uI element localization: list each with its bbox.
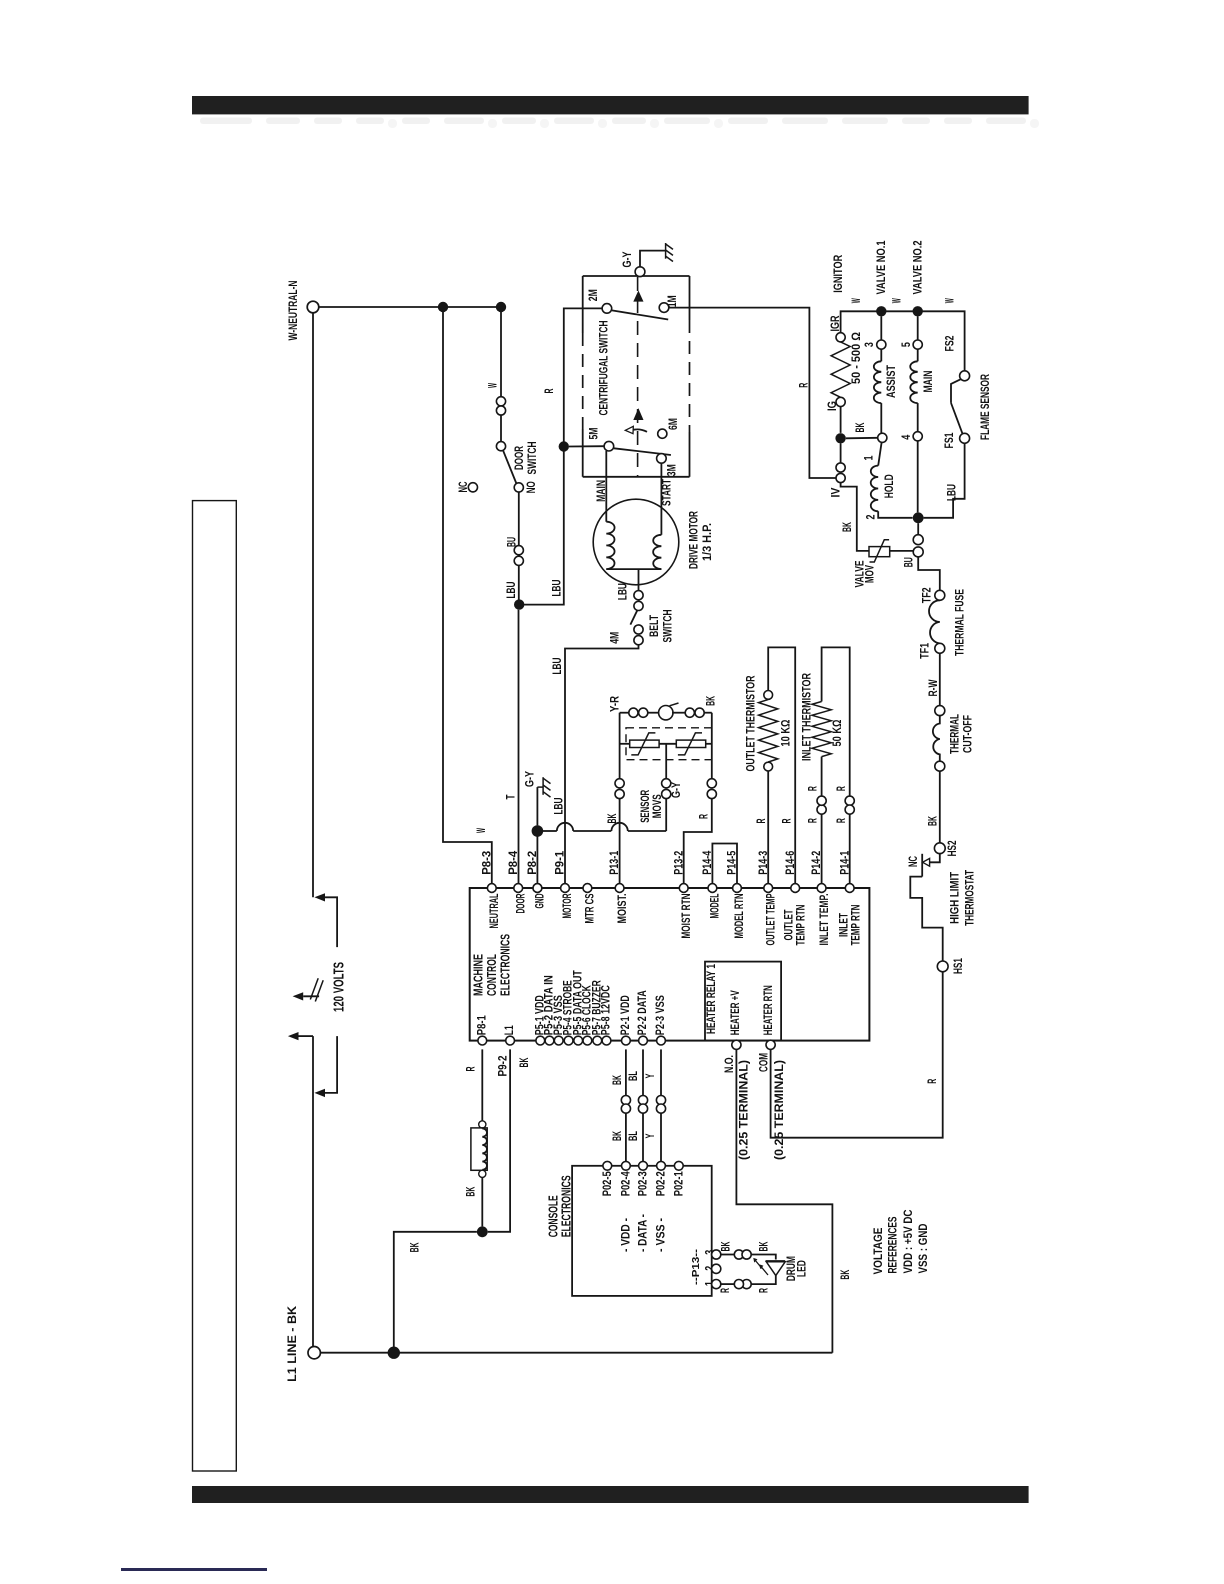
svg-text:P14-5: P14-5 (727, 850, 739, 874)
wire: L1 riser (312, 1036, 314, 1346)
pin P14-4 on MCE top (708, 884, 717, 893)
switch: door switch (496, 442, 505, 451)
svg-text:P13-1: P13-1 (609, 850, 621, 874)
marker: triangle upper (633, 291, 643, 302)
wire: winding bottoms (606, 568, 661, 570)
wire: P9-2 BK (488, 1049, 510, 1231)
svg-text:OUTLET TEMP: OUTLET TEMP (765, 893, 777, 945)
pin P02-4 console top (622, 1161, 631, 1170)
wire: T door to P8-4 (518, 610, 520, 884)
svg-text:ASSIST: ASSIST (886, 365, 898, 398)
svg-text:L1: L1 (504, 1025, 516, 1035)
pin P5-4 STROBE on MCE bottom (564, 1036, 573, 1045)
thermistor: inlet 50K (821, 814, 823, 884)
box: centrifugal switch (583, 275, 690, 277)
schematic sheet edge box (193, 501, 237, 1471)
wire: start lead (660, 463, 662, 535)
svg-text:R: R (836, 818, 848, 823)
svg-text:HS2: HS2 (947, 840, 959, 856)
flame sensor (960, 371, 970, 381)
valve: main coil (917, 317, 919, 341)
box: console electronics (572, 1166, 712, 1296)
pin P8-2 terminal (533, 884, 542, 893)
valve: hold coil (878, 442, 881, 465)
pin L1 on MCE bottom (506, 1036, 515, 1045)
wire: LBU to 5M junction (519, 451, 564, 605)
svg-text:START: START (662, 479, 674, 506)
svg-text:L1 LINE - BK: L1 LINE - BK (287, 1305, 299, 1382)
svg-text:W: W (945, 298, 957, 303)
svg-text:Y-R: Y-R (610, 695, 622, 712)
svg-text:TEMP RTN: TEMP RTN (851, 905, 863, 946)
svg-text:SWITCH: SWITCH (663, 610, 675, 643)
wire: model jumper P14-4/P14-5 (712, 844, 737, 884)
motor: drive motor 1/3 HP (593, 499, 679, 585)
svg-text:120 VOLTS: 120 VOLTS (332, 962, 348, 1012)
svg-text:BK: BK (466, 1186, 478, 1196)
svg-text:BK: BK (410, 1242, 422, 1252)
wire: valve junction down to thermal fuse (917, 523, 919, 535)
svg-text:R: R (927, 1078, 939, 1083)
marker: actuator arrow (634, 429, 648, 431)
wire: GND net with hops (536, 837, 538, 884)
svg-text:R: R (807, 786, 819, 791)
header bar (192, 96, 1029, 114)
svg-text:R: R (698, 814, 710, 819)
svg-text:LBU: LBU (551, 580, 563, 597)
pin P8-2 on MCE top (533, 884, 542, 893)
svg-text:P2-2 DATA: P2-2 DATA (637, 990, 649, 1035)
svg-text:P02-1: P02-1 (673, 1171, 685, 1196)
node: junction W wire (438, 302, 448, 312)
pin P5-7 BUZZER on MCE bottom (593, 1036, 602, 1045)
svg-text:2: 2 (866, 515, 878, 520)
pin P14-1 on MCE top (845, 884, 854, 893)
svg-text:BK: BK (840, 1269, 852, 1279)
svg-text:6M: 6M (668, 418, 680, 430)
svg-text:HEATER RTN: HEATER RTN (763, 985, 775, 1035)
svg-text:P8-3: P8-3 (481, 851, 493, 875)
pin P02-5 console top (603, 1161, 612, 1170)
wire: R from 2M down to 5M junction (564, 308, 602, 442)
node: neutral terminal W-NEUTRAL-N (307, 301, 319, 313)
node: junction valve2 (913, 306, 923, 316)
svg-text:R-W: R-W (928, 679, 940, 696)
svg-text:IV: IV (831, 487, 843, 497)
pin P13-2 on MCE top (679, 884, 688, 893)
svg-text:GND: GND (535, 894, 547, 909)
svg-text:INLET: INLET (838, 913, 850, 937)
wire BK P2-console (625, 1049, 627, 1095)
svg-text:LBU: LBU (506, 582, 518, 599)
pin P14-2 on MCE top (817, 884, 826, 893)
svg-text:DOOR: DOOR (515, 893, 527, 913)
svg-text:HS1: HS1 (953, 958, 965, 974)
wire: 1M to ignitor connector IV (669, 308, 836, 478)
wire: BK to hold/assist junction (846, 437, 878, 440)
svg-text:CENTRIFUGAL SWITCH: CENTRIFUGAL SWITCH (599, 321, 611, 416)
pin P14-6 on MCE top (791, 884, 800, 893)
node: junction valve1 (876, 306, 886, 316)
node: junction door-switch feed (496, 302, 506, 312)
svg-text:HOLD: HOLD (884, 474, 896, 498)
pin P5-2 DATA IN on MCE bottom (545, 1036, 554, 1045)
svg-text:HEATER +V: HEATER +V (730, 990, 742, 1035)
svg-text:R: R (782, 818, 794, 823)
wire: sensor left leg BK to P13-1 (619, 713, 621, 779)
pin P8-1 on MCE bottom (478, 1036, 487, 1045)
footer bar (192, 1486, 1029, 1503)
svg-text:T: T (505, 795, 517, 800)
svg-text:BU: BU (903, 557, 915, 567)
pin P2-3 VSS on MCE bottom (657, 1036, 666, 1045)
ignitor branch (841, 311, 965, 371)
svg-text:1M: 1M (667, 295, 679, 307)
pin MTR CS on MCE top (583, 884, 592, 893)
svg-text:P14-3: P14-3 (758, 851, 770, 875)
svg-text:BL: BL (628, 1131, 640, 1141)
svg-text:P14-2: P14-2 (811, 851, 823, 875)
svg-text:THERMAL: THERMAL (950, 714, 962, 754)
sensor: rotating contact (659, 706, 673, 720)
svg-text:IGNITOR: IGNITOR (833, 254, 845, 293)
pin P2-1 VDD on MCE bottom (622, 1036, 631, 1045)
svg-text:ELECTRONICS: ELECTRONICS (497, 934, 512, 996)
svg-text:BK: BK (519, 1057, 531, 1067)
wire: W to P8-3 (443, 307, 492, 884)
wire: junction to 5M (569, 445, 604, 447)
svg-text:P13-2: P13-2 (673, 851, 685, 875)
varistor: MOV 2 (676, 740, 705, 747)
valve: assist coil (880, 317, 882, 341)
wire: FS1 LBU to valve junction (924, 443, 965, 518)
svg-text:HIGH LIMIT: HIGH LIMIT (949, 872, 961, 924)
svg-text:P5-8 12VDC: P5-8 12VDC (601, 985, 613, 1035)
svg-text:R: R (756, 818, 768, 823)
svg-text:Y: Y (645, 1133, 657, 1138)
svg-text:5: 5 (901, 342, 913, 347)
svg-text:CUT-OFF: CUT-OFF (962, 715, 974, 753)
switch: centrifugal 2M-1M (602, 304, 612, 314)
wire: main lead (605, 451, 607, 522)
svg-text:MTR CS: MTR CS (585, 893, 597, 923)
node: junction GND (532, 825, 544, 837)
pin P13-1 on MCE top (615, 884, 624, 893)
node: junction at 5M feed (559, 441, 569, 451)
wire BL P2-console (642, 1049, 644, 1095)
svg-text:BK: BK (842, 522, 854, 532)
svg-text:LBU: LBU (552, 658, 564, 675)
svg-text:MOVS: MOVS (652, 794, 664, 818)
svg-text:FS2: FS2 (945, 336, 957, 352)
wire: P13-3 BK to LED (721, 1254, 735, 1256)
wire: P8-1 R / fuse link (481, 1049, 483, 1121)
svg-text:BK: BK (855, 422, 867, 432)
switch: belt switch (634, 591, 643, 600)
svg-text:FLAME SENSOR: FLAME SENSOR (980, 374, 992, 440)
svg-text:SWITCH: SWITCH (527, 442, 539, 475)
resistor: ignitor 50-500 ohm (836, 333, 845, 342)
svg-text:W: W (476, 828, 488, 833)
thermistor: outlet 10K (767, 771, 769, 884)
wire: sensor right leg R to P13-2 (711, 713, 713, 779)
fuse: line fuse (479, 1121, 486, 1128)
svg-text:R: R (720, 1288, 732, 1293)
footer link underline (121, 1568, 267, 1571)
pin P2-2 DATA on MCE bottom (639, 1036, 648, 1045)
wire: belt switch to P9-1 (LBU) (565, 645, 639, 884)
svg-text:TEMP RTN: TEMP RTN (795, 905, 807, 946)
svg-text:P2-3 VSS: P2-3 VSS (655, 995, 667, 1035)
pin N.O. heater (732, 1040, 741, 1049)
svg-text:IGR: IGR (830, 315, 842, 332)
dashed actuator line (637, 277, 639, 476)
svg-text:W-NEUTRAL-N: W-NEUTRAL-N (288, 281, 300, 341)
svg-text:P02-2: P02-2 (656, 1171, 668, 1196)
wire: BK to L1 dot (394, 1232, 477, 1347)
svg-text:MOIST.: MOIST. (617, 894, 629, 924)
pin P5-1 VDD on MCE bottom (536, 1036, 545, 1045)
measure: 120 volts arrows (314, 893, 325, 901)
svg-text:VALVE NO.1: VALVE NO.1 (876, 240, 888, 294)
svg-text:BELT: BELT (649, 615, 661, 637)
pin P5-5 DATA OUT on MCE bottom (574, 1036, 583, 1045)
svg-text:TF1: TF1 (919, 642, 931, 658)
ground: G-Y chassis at centrifugal switch (635, 267, 645, 277)
wire: L1 bus (321, 1352, 833, 1354)
sensor: moisture sensor loop Y-R (620, 712, 629, 714)
svg-text:P8-2: P8-2 (527, 851, 539, 875)
connector: IV pair (836, 463, 845, 472)
svg-text:THERMAL FUSE: THERMAL FUSE (954, 589, 966, 656)
svg-text:IG: IG (827, 401, 839, 411)
door switch chain (500, 312, 502, 397)
svg-text:BK: BK (705, 695, 717, 705)
svg-text:BK: BK (612, 1075, 624, 1085)
svg-text:P8-4: P8-4 (508, 850, 520, 875)
svg-text:MOV: MOV (865, 565, 877, 583)
varistor: MOV 1 (630, 740, 659, 747)
svg-text:W: W (851, 298, 863, 303)
svg-text:3M: 3M (666, 464, 678, 476)
svg-text:MAIN: MAIN (923, 371, 935, 393)
coil: start winding (653, 535, 661, 569)
svg-text:VSS : GND: VSS : GND (916, 1223, 930, 1273)
svg-text:ELECTRONICS: ELECTRONICS (558, 1175, 573, 1237)
fuse: thermal cut-off (935, 706, 945, 716)
wire: P13-1 R from LED (751, 1276, 776, 1285)
svg-text:DRIVE MOTOR: DRIVE MOTOR (689, 511, 701, 569)
svg-text:P9-2: P9-2 (498, 1056, 510, 1077)
svg-text:N.O.: N.O. (724, 1055, 736, 1073)
wire: neutral bus W-NEUTRAL-N (319, 306, 501, 308)
svg-text:50 KΩ: 50 KΩ (832, 720, 844, 747)
svg-text:R: R (544, 388, 556, 393)
varistor: valve MOV (841, 483, 869, 551)
svg-text:LBU: LBU (554, 798, 566, 815)
svg-text:2M: 2M (588, 289, 600, 301)
svg-text:P14-6: P14-6 (785, 851, 797, 875)
svg-text:1/3 H.P.: 1/3 H.P. (702, 523, 714, 561)
pin P5-6 CLOCK on MCE bottom (583, 1036, 592, 1045)
svg-text:3: 3 (864, 342, 876, 347)
svg-text:LBU: LBU (947, 484, 959, 501)
svg-text:MODEL RTN: MODEL RTN (734, 894, 746, 939)
svg-text:BK: BK (612, 1131, 624, 1141)
node: junction IG/BK (835, 433, 845, 443)
svg-text:BL: BL (628, 1071, 640, 1081)
svg-text:4M: 4M (609, 632, 621, 644)
box: machine control electronics (470, 888, 870, 1041)
svg-text:- DATA -: - DATA - (638, 1214, 650, 1252)
svg-text:FS1: FS1 (944, 432, 956, 448)
svg-text:10 KΩ: 10 KΩ (780, 720, 792, 747)
svg-text:P02-4: P02-4 (621, 1171, 633, 1196)
svg-text:(0.25 TERMINAL): (0.25 TERMINAL) (774, 1060, 786, 1160)
pin COM heater (766, 1040, 775, 1049)
switch: centrifugal 5M-3M (604, 441, 614, 451)
svg-text:HEATER RELAY 1: HEATER RELAY 1 (706, 964, 718, 1034)
svg-text:NEUTRAL: NEUTRAL (489, 894, 501, 929)
wire: GND horizontal with hops to sensor MOVs (543, 830, 557, 832)
svg-text:R: R (836, 786, 848, 791)
svg-text:1: 1 (863, 455, 875, 460)
pin P02-2 console top (657, 1161, 666, 1170)
svg-text:OUTLET: OUTLET (783, 910, 795, 941)
svg-text:- VDD -: - VDD - (621, 1218, 633, 1252)
svg-text:P14-1: P14-1 (839, 850, 851, 874)
svg-text:Y: Y (645, 1073, 657, 1078)
svg-text:BK: BK (758, 1241, 770, 1251)
svg-text:W: W (892, 298, 904, 303)
box: heater relay 1 (705, 962, 781, 1041)
node: junction BK console feed (477, 1226, 488, 1237)
pin P14-5 on MCE top (733, 884, 742, 893)
svg-text:BK: BK (721, 1241, 733, 1251)
svg-text:W: W (487, 383, 499, 388)
svg-text:MAIN: MAIN (596, 480, 608, 502)
svg-text:SENSOR: SENSOR (640, 789, 652, 822)
wire: neutral drop to 120V arrow (312, 313, 314, 898)
svg-text:R: R (466, 1066, 478, 1071)
svg-text:G-Y: G-Y (622, 251, 634, 267)
svg-text:50 - 500 Ω: 50 - 500 Ω (851, 332, 863, 384)
svg-text:R: R (758, 1288, 770, 1293)
svg-text:MOIST RTN: MOIST RTN (681, 894, 693, 939)
svg-text:P02-5: P02-5 (602, 1171, 614, 1196)
svg-text:P02-3: P02-3 (638, 1171, 650, 1196)
svg-text:P2-1 VDD: P2-1 VDD (620, 995, 632, 1035)
marker: triangle lower (633, 408, 643, 420)
svg-text:MOTOR: MOTOR (562, 893, 574, 918)
svg-text:(0.25 TERMINAL): (0.25 TERMINAL) (739, 1060, 751, 1160)
pin P5-3 VSS on MCE bottom (554, 1036, 563, 1045)
svg-text:REFERENCES: REFERENCES (886, 1217, 900, 1274)
pin P14-3 on MCE top (764, 884, 773, 893)
svg-text:LED: LED (797, 1260, 809, 1277)
node: junction valve bottom (913, 512, 924, 523)
svg-text:--P13--: --P13-- (691, 1249, 702, 1285)
svg-text:TF2: TF2 (921, 587, 933, 603)
svg-text:OUTLET THERMISTOR: OUTLET THERMISTOR (746, 675, 758, 772)
svg-text:P9-1: P9-1 (555, 850, 567, 875)
wire: R from HS1 to heater COM (771, 972, 943, 1138)
coil: main winding (606, 522, 614, 569)
svg-text:MODEL: MODEL (710, 894, 722, 919)
box: sensor MOVs dashed (626, 728, 712, 760)
svg-text:LBU: LBU (618, 583, 630, 600)
svg-text:P8-1: P8-1 (476, 1015, 488, 1035)
node: L1 terminal (308, 1347, 320, 1359)
svg-text:- VSS -: - VSS - (656, 1218, 668, 1252)
svg-text:4: 4 (901, 434, 913, 439)
svg-text:R: R (799, 382, 811, 387)
ground: G-Y chassis at P8-2 (542, 777, 544, 795)
svg-text:DOOR: DOOR (514, 446, 526, 470)
pin P5-8 12VDC on MCE bottom (602, 1036, 611, 1045)
svg-text:VDD : +5V DC: VDD : +5V DC (901, 1209, 915, 1273)
svg-text:BK: BK (607, 813, 619, 823)
svg-text:G-Y: G-Y (671, 782, 683, 798)
connector pair on door wire (496, 397, 505, 406)
svg-text:THERMOSTAT: THERMOSTAT (965, 870, 977, 926)
svg-text:INLET TEMP.: INLET TEMP. (819, 894, 831, 946)
svg-text:VALVE NO.2: VALVE NO.2 (913, 241, 925, 295)
watermark ghost row (200, 118, 252, 125)
svg-text:VOLTAGE: VOLTAGE (871, 1228, 885, 1275)
pin P8-3 on MCE top (487, 884, 496, 893)
wire: heater N.O. loop to L1 bus (736, 1049, 832, 1352)
fuse: thermal fuse TF2-TF1 (935, 590, 945, 600)
svg-text:NO: NO (526, 481, 538, 493)
pin P8-4 on MCE top (514, 884, 523, 893)
svg-text:NC: NC (908, 856, 920, 867)
pin P9-1 on MCE top (561, 884, 570, 893)
wire Y P2-console (660, 1049, 662, 1095)
svg-text:P14-4: P14-4 (702, 850, 714, 874)
pin P02-1 console top (674, 1161, 683, 1170)
node: junction LBU (514, 599, 524, 609)
svg-text:5M: 5M (589, 428, 601, 440)
svg-text:R: R (807, 818, 819, 823)
wire: MOV interconnect + G-Y leg (620, 743, 630, 745)
svg-text:INLET THERMISTOR: INLET THERMISTOR (801, 672, 813, 761)
svg-text:COM: COM (758, 1053, 770, 1072)
svg-text:BK: BK (928, 816, 940, 826)
thermostat: high limit (934, 843, 945, 854)
pin P02-3 console top (639, 1161, 648, 1170)
node: junction L1 (388, 1347, 400, 1359)
connector pair BU (514, 546, 523, 555)
svg-text:G-Y: G-Y (525, 771, 537, 787)
led: drum LED (766, 1260, 786, 1262)
